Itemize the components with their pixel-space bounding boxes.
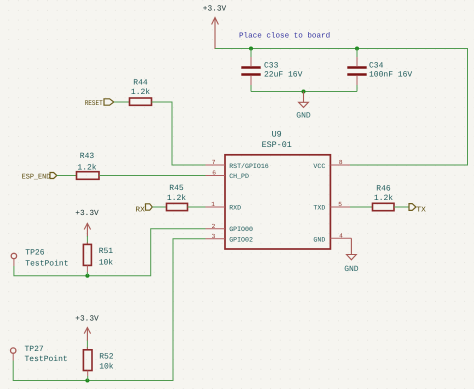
svg-text:VCC: VCC <box>313 163 325 170</box>
svg-text:2: 2 <box>212 223 216 230</box>
hier label ESP_END <box>22 173 57 182</box>
capacitor C34 <box>347 49 412 92</box>
svg-text:GND: GND <box>344 265 359 274</box>
hier label TX <box>409 204 426 215</box>
svg-text:RESET: RESET <box>85 100 104 108</box>
svg-text:TestPoint: TestPoint <box>25 259 68 268</box>
svg-text:1.2k: 1.2k <box>77 164 96 173</box>
junction <box>355 47 359 51</box>
junction <box>249 47 253 51</box>
svg-text:GND: GND <box>313 237 325 244</box>
wire <box>152 206 166 208</box>
wire <box>188 206 206 208</box>
wire power stub R52 <box>86 341 88 348</box>
svg-text:ESP-01: ESP-01 <box>262 140 292 150</box>
wire cap bottoms <box>251 91 357 93</box>
svg-text:R46: R46 <box>376 184 391 193</box>
testpoint TP27 <box>11 345 68 364</box>
pin 8 <box>330 159 350 166</box>
wire GPIO02 net <box>13 239 205 381</box>
capacitor C33 <box>241 49 302 92</box>
svg-text:4: 4 <box>339 232 343 239</box>
pin 1 <box>206 201 226 208</box>
svg-text:C33: C33 <box>264 61 279 70</box>
junction <box>85 379 89 383</box>
svg-text:1.2k: 1.2k <box>374 194 393 203</box>
svg-text:+3.3V: +3.3V <box>75 315 99 324</box>
svg-text:100nF 16V: 100nF 16V <box>369 71 412 80</box>
svg-text:1: 1 <box>211 201 215 208</box>
power symbol +3.3V (R52) <box>84 328 90 350</box>
pin 5 <box>330 201 350 208</box>
svg-text:3: 3 <box>212 233 216 240</box>
pin 3 <box>206 233 226 240</box>
IC U9 ESP-01 <box>225 129 330 249</box>
svg-text:TestPoint: TestPoint <box>25 355 68 364</box>
svg-text:ESP_END: ESP_END <box>22 173 51 181</box>
wire <box>394 206 409 208</box>
wire <box>99 175 206 177</box>
testpoint TP26 <box>11 249 68 269</box>
svg-text:R45: R45 <box>169 184 184 193</box>
svg-text:1.2k: 1.2k <box>131 88 150 97</box>
wire power stub R51 <box>86 236 88 243</box>
wire <box>114 101 130 103</box>
svg-text:GPIO02: GPIO02 <box>229 237 253 244</box>
svg-text:TP26: TP26 <box>25 249 44 258</box>
resistor R46 <box>373 184 395 210</box>
svg-text:RST/GPIO16: RST/GPIO16 <box>229 163 269 170</box>
hier label RESET <box>85 99 114 108</box>
power symbol +3.3V (top) <box>212 18 219 50</box>
junction <box>85 274 89 278</box>
svg-text:10k: 10k <box>99 259 114 268</box>
wire +3.3V rail <box>215 49 468 166</box>
svg-text:C34: C34 <box>369 61 384 70</box>
ground (pin 4) <box>347 238 357 259</box>
svg-text:TX: TX <box>416 206 426 214</box>
svg-text:RXD: RXD <box>229 205 241 212</box>
svg-text:TXD: TXD <box>313 205 325 212</box>
svg-text:U9: U9 <box>272 129 282 139</box>
power symbol +3.3V (R51) <box>84 223 90 244</box>
resistor R52 <box>83 350 113 381</box>
svg-text:RX: RX <box>135 206 145 214</box>
hier label RX <box>135 204 152 215</box>
svg-text:Place close to board: Place close to board <box>239 32 330 41</box>
svg-text:10k: 10k <box>99 362 114 371</box>
svg-text:+3.3V: +3.3V <box>75 209 99 218</box>
wire GPIO00 net <box>14 229 206 276</box>
svg-text:CH_PD: CH_PD <box>229 173 249 180</box>
svg-text:TP27: TP27 <box>25 345 44 354</box>
svg-text:+3.3V: +3.3V <box>203 5 227 14</box>
svg-text:R51: R51 <box>99 247 114 256</box>
pin 6 <box>206 170 226 177</box>
svg-text:5: 5 <box>338 201 342 208</box>
pin 7 <box>206 159 226 166</box>
pin 4 <box>330 232 351 239</box>
svg-text:8: 8 <box>339 159 343 166</box>
svg-text:1.2k: 1.2k <box>167 194 186 203</box>
junction <box>302 90 306 94</box>
svg-text:R44: R44 <box>133 79 148 88</box>
resistor R45 <box>167 184 188 211</box>
svg-text:7: 7 <box>212 159 216 166</box>
resistor R51 <box>83 244 113 275</box>
svg-text:GND: GND <box>296 112 311 121</box>
wire <box>152 102 206 165</box>
svg-text:R43: R43 <box>80 152 95 161</box>
wire TXD net <box>350 206 373 208</box>
svg-text:6: 6 <box>212 170 216 177</box>
wire <box>57 175 77 177</box>
resistor R44 <box>130 79 152 106</box>
svg-text:GPIO00: GPIO00 <box>229 226 253 233</box>
resistor R43 <box>77 152 100 179</box>
svg-text:R52: R52 <box>99 352 114 361</box>
svg-text:22uF 16V: 22uF 16V <box>264 71 303 80</box>
ground (top) <box>299 92 309 108</box>
pin 2 <box>206 223 226 230</box>
